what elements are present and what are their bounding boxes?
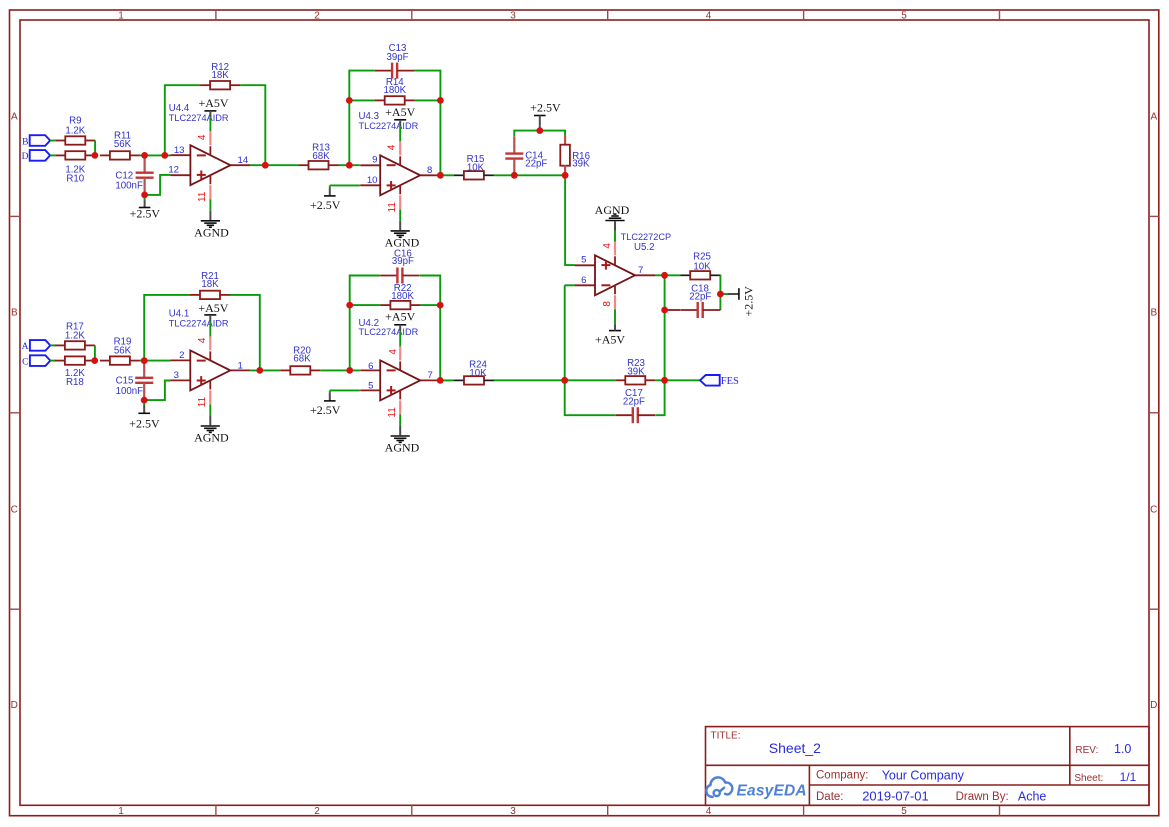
svg-text:Sheet_2: Sheet_2 (769, 740, 821, 756)
svg-text:4: 4 (197, 337, 208, 343)
svg-text:TLC2274AIDR: TLC2274AIDR (169, 113, 229, 123)
svg-text:4: 4 (706, 10, 712, 21)
junction C15 bottom (141, 397, 148, 404)
svg-text:56K: 56K (114, 346, 132, 357)
power +A5V flag above U4.3 (385, 105, 415, 141)
wire R19 to U4.1 pin2 (140, 360, 171, 362)
svg-text:+2.5V: +2.5V (130, 207, 161, 221)
svg-text:13: 13 (174, 145, 185, 156)
resistor R9 (55, 116, 95, 145)
frame row ticks left (10, 215, 21, 217)
svg-text:Company:: Company: (816, 770, 868, 782)
svg-text:R10: R10 (66, 174, 84, 185)
junction +2.5V right (717, 291, 724, 298)
svg-text:B: B (11, 308, 18, 319)
svg-text:C: C (1150, 505, 1157, 516)
wire C15 bottom to U4.1 pin3 (144, 381, 170, 401)
svg-text:22pF: 22pF (525, 159, 547, 170)
svg-text:180K: 180K (391, 291, 414, 302)
power +2.5V flag right (rotated) (720, 286, 755, 317)
resistor R10 (55, 151, 95, 184)
svg-text:1: 1 (118, 806, 124, 817)
wire U4.1 feedback left vertical (144, 295, 190, 361)
EasyEDA logo cloud (706, 777, 732, 796)
wire C12 bottom to U4.4 pin12 (145, 175, 171, 195)
svg-text:39pF: 39pF (386, 52, 408, 63)
wire R17 to junction (94, 345, 96, 360)
ground AGND flag below U4.2 (385, 414, 420, 454)
op-amp U4.2 TLC2274AIDR (359, 318, 441, 414)
resistor R21 (190, 271, 230, 299)
svg-text:11: 11 (387, 407, 398, 418)
svg-text:3: 3 (174, 370, 179, 381)
wire C17 loop right (655, 380, 664, 415)
title block logo cell divider (808, 765, 810, 805)
junction R17/R18 (91, 357, 98, 364)
junction U4.4 output (262, 162, 269, 169)
wire U5.2 output vertical to FES net (664, 275, 666, 380)
junction R9/R10 (92, 152, 99, 159)
wire C13 right to loop right vertical (414, 71, 440, 176)
wire A flag stub (50, 344, 55, 346)
wire U4.4 feedback right vertical (240, 85, 265, 165)
title block outline (706, 727, 1150, 806)
svg-text:TLC2274AIDR: TLC2274AIDR (359, 327, 419, 337)
svg-text:4: 4 (388, 349, 399, 355)
node B input netflag (22, 135, 50, 147)
svg-text:9: 9 (372, 155, 377, 166)
svg-text:+A5V: +A5V (198, 96, 228, 110)
junction U4.3 pin9 (346, 162, 353, 169)
svg-text:+2.5V: +2.5V (530, 101, 561, 115)
power +A5V flag above U4.2 (385, 309, 415, 346)
power +A5V flag above U4.1 (198, 301, 228, 336)
title block row divider (706, 764, 1150, 766)
junction feedback/pin13 (161, 152, 168, 159)
svg-text:C: C (11, 505, 18, 516)
svg-text:+2.5V: +2.5V (742, 286, 756, 317)
svg-text:39K: 39K (627, 367, 645, 378)
frame column ticks top (215, 10, 217, 20)
wire R13 to U4.3 pin9 (339, 164, 360, 166)
svg-text:180K: 180K (383, 85, 406, 96)
svg-text:AGND: AGND (595, 203, 630, 217)
svg-text:+2.5V: +2.5V (129, 416, 160, 430)
resistor R11 (100, 130, 140, 159)
svg-text:FES: FES (721, 376, 739, 387)
svg-text:A: A (22, 342, 29, 352)
wire U4.4 feedback left vertical (165, 85, 200, 155)
junction U5.2 output (661, 272, 668, 279)
svg-text:D: D (22, 152, 29, 162)
svg-text:10K: 10K (469, 368, 487, 379)
wire R15 to C14/R16 bottom (494, 174, 565, 176)
junction C14 bottom (511, 172, 518, 179)
svg-text:1.0: 1.0 (1114, 742, 1131, 756)
junction U4.1 output (256, 367, 263, 374)
svg-text:10K: 10K (467, 163, 485, 174)
power +2.5V flag below C15 (129, 400, 160, 430)
svg-text:1: 1 (118, 10, 124, 21)
power +2.5V flag below C12 (130, 195, 161, 221)
svg-text:3: 3 (510, 10, 516, 21)
svg-text:18K: 18K (211, 70, 229, 81)
svg-text:22pF: 22pF (623, 397, 645, 408)
resistor R19 (100, 337, 140, 365)
wire U5.2 pin6 vertical to FES net (564, 285, 566, 380)
wire D flag stub (50, 154, 55, 156)
junction R22 right (437, 302, 444, 309)
wire U4.4 output (250, 164, 298, 166)
junction U4.3 output (437, 172, 444, 179)
op-amp U4.4 TLC2274AIDR (169, 103, 251, 199)
wire R14 right stub (415, 99, 441, 101)
svg-text:U5.2: U5.2 (634, 242, 654, 253)
capacitor C18 (665, 284, 721, 318)
svg-text:5: 5 (368, 381, 373, 392)
svg-text:1.2K: 1.2K (65, 126, 85, 137)
node FES output netflag (700, 375, 739, 387)
ground AGND flag below U4.4 (194, 199, 229, 239)
op-amp U4.3 TLC2274AIDR (359, 111, 441, 210)
svg-text:6: 6 (581, 275, 586, 286)
wire C17 loop left (565, 380, 616, 415)
wire R11 to U4.4 pin13 (140, 154, 171, 156)
junction U4.2 output (437, 377, 444, 384)
ground AGND flag above U5.2 (595, 203, 630, 242)
resistor R16 (560, 135, 590, 175)
svg-text:1/1: 1/1 (1120, 770, 1137, 784)
wire U4.3 loop left vertical (349, 71, 375, 166)
op-amp U4.1 TLC2274AIDR (169, 309, 251, 405)
svg-text:1: 1 (238, 360, 243, 371)
ground AGND flag below U4.1 (194, 404, 229, 444)
svg-text:68K: 68K (312, 151, 330, 162)
svg-text:AGND: AGND (194, 430, 229, 444)
svg-text:4: 4 (602, 243, 613, 249)
svg-text:AGND: AGND (385, 441, 420, 455)
title block REV cell divider (1069, 727, 1071, 785)
junction R14 left (346, 97, 353, 104)
svg-text:100nF: 100nF (115, 181, 143, 192)
wire R20 to U4.2 pin6 (320, 369, 360, 371)
wire U4.3 output to R15 (440, 174, 454, 176)
capacitor C16 (380, 248, 420, 283)
wire R25 right down to +2.5V node (719, 275, 721, 310)
junction C12 bottom (141, 192, 148, 199)
junction C18 left (661, 307, 668, 314)
frame row ticks right (1149, 215, 1159, 217)
svg-text:2019-07-01: 2019-07-01 (862, 788, 929, 803)
power +A5V flag below U5.2 (595, 309, 625, 346)
svg-text:Drawn By:: Drawn By: (956, 791, 1009, 803)
junction FES net right (661, 377, 668, 384)
wire U4.1 feedback right vertical (230, 295, 260, 371)
svg-text:2: 2 (179, 350, 184, 361)
frame column ticks bottom (215, 805, 217, 815)
svg-text:D: D (11, 700, 18, 711)
resistor R18 (55, 356, 95, 388)
wire R16 bottom down to U5.2 pin5 (565, 175, 575, 265)
svg-text:+2.5V: +2.5V (310, 198, 341, 212)
power +2.5V flag at U4.3 pin10 (310, 185, 360, 212)
svg-text:18K: 18K (201, 279, 219, 290)
svg-text:+2.5V: +2.5V (310, 403, 341, 417)
svg-text:C15: C15 (116, 376, 134, 387)
wire R22 left stub (350, 304, 381, 306)
svg-text:39pF: 39pF (392, 256, 414, 267)
resistor R17 (55, 321, 95, 349)
resistor R15 (454, 154, 494, 180)
svg-text:12: 12 (168, 165, 179, 176)
svg-text:REV:: REV: (1075, 745, 1098, 756)
svg-text:+A5V: +A5V (595, 333, 625, 347)
junction R14 right (437, 97, 444, 104)
svg-text:8: 8 (427, 165, 432, 176)
node C input netflag (22, 355, 50, 367)
svg-text:5: 5 (901, 806, 907, 817)
svg-text:39K: 39K (572, 159, 590, 170)
wire U4.1 output (250, 369, 280, 371)
svg-text:C: C (22, 357, 28, 367)
svg-text:5: 5 (581, 255, 586, 266)
svg-text:AGND: AGND (194, 225, 229, 239)
resistor R20 (280, 346, 320, 375)
svg-text:4: 4 (706, 806, 712, 817)
junction feedback/C15 (141, 357, 148, 364)
svg-text:2: 2 (314, 806, 320, 817)
svg-text:7: 7 (428, 370, 433, 381)
capacitor C14 (505, 136, 547, 176)
junction U4.2 pin6 (346, 367, 353, 374)
svg-text:Ache: Ache (1018, 789, 1047, 803)
power +2.5V flag above C14/R16 (530, 101, 561, 131)
capacitor C17 (616, 388, 656, 423)
wire C16 right to loop right vertical (420, 276, 440, 381)
svg-text:TLC2274AIDR: TLC2274AIDR (169, 319, 229, 329)
svg-text:68K: 68K (293, 353, 311, 364)
junction R22 left (346, 302, 353, 309)
svg-text:D: D (1150, 700, 1157, 711)
svg-text:100nF: 100nF (116, 386, 144, 397)
svg-text:11: 11 (197, 191, 208, 202)
svg-text:8: 8 (602, 301, 613, 307)
resistor R13 (299, 143, 339, 170)
svg-text:+A5V: +A5V (385, 105, 415, 119)
svg-text:+A5V: +A5V (198, 301, 228, 315)
svg-text:R18: R18 (66, 377, 84, 388)
node D input netflag (22, 150, 50, 162)
capacitor C13 (375, 43, 415, 79)
wire R14 left stub (349, 99, 375, 101)
power +2.5V flag at U4.2 pin5 (310, 390, 360, 416)
node A input netflag (22, 340, 51, 352)
wire FES net left segment (494, 379, 615, 381)
svg-text:4: 4 (387, 144, 398, 150)
svg-text:TLC2272CP: TLC2272CP (621, 232, 672, 242)
svg-text:4: 4 (197, 134, 208, 140)
junction pin6/FES net left (561, 377, 568, 384)
wire R9 to junction (94, 141, 96, 156)
svg-text:22pF: 22pF (689, 291, 711, 302)
junction R16 bottom (562, 172, 569, 179)
svg-text:3: 3 (510, 806, 516, 817)
svg-text:TITLE:: TITLE: (711, 731, 741, 742)
svg-text:Your Company: Your Company (882, 769, 965, 783)
capacitor C12 (115, 155, 153, 195)
svg-text:6: 6 (368, 361, 373, 372)
wire U4.2 output to R24 (440, 379, 454, 381)
svg-text:B: B (1150, 308, 1157, 319)
wire C flag stub (50, 360, 55, 362)
wire B flag stub (50, 140, 55, 142)
junction +2.5V top (536, 127, 543, 134)
svg-text:EasyEDA: EasyEDA (737, 782, 807, 799)
svg-text:TLC2274AIDR: TLC2274AIDR (359, 121, 419, 131)
junction C12 top (141, 152, 148, 159)
svg-text:11: 11 (197, 396, 208, 407)
svg-text:14: 14 (238, 155, 249, 166)
svg-text:+A5V: +A5V (385, 309, 415, 323)
svg-text:Sheet:: Sheet: (1074, 773, 1103, 784)
op-amp U5.2 TLC2272CP (575, 232, 671, 309)
wire R23 to FES flag (655, 379, 700, 381)
title block company/date divider (809, 784, 1149, 786)
resistor R14 (375, 77, 415, 105)
svg-text:A: A (11, 112, 18, 123)
svg-text:Date:: Date: (816, 791, 844, 803)
wire C14/R16 top rail (514, 131, 565, 137)
resistor R25 (680, 251, 720, 279)
svg-text:11: 11 (387, 202, 398, 213)
wire U4.2 loop left vertical (350, 276, 380, 371)
resistor R22 (380, 283, 420, 309)
svg-text:1.2K: 1.2K (65, 331, 85, 342)
capacitor C15 (116, 361, 154, 401)
wire R22 right stub (420, 304, 440, 306)
resistor R12 (200, 62, 240, 90)
svg-text:2: 2 (314, 10, 320, 21)
ground AGND flag below U4.3 (385, 209, 420, 249)
svg-text:10K: 10K (693, 262, 711, 273)
svg-text:10: 10 (367, 175, 378, 186)
wire U5.2 pin6 (565, 284, 575, 286)
svg-text:A: A (1150, 112, 1157, 123)
svg-text:B: B (22, 137, 28, 147)
wire U5.2 output (655, 274, 680, 276)
svg-text:5: 5 (901, 10, 907, 21)
svg-text:7: 7 (638, 265, 643, 276)
power +A5V flag above U4.4 (198, 96, 228, 131)
svg-text:56K: 56K (114, 139, 132, 150)
resistor R24 (454, 360, 494, 385)
resistor R23 (615, 358, 655, 384)
